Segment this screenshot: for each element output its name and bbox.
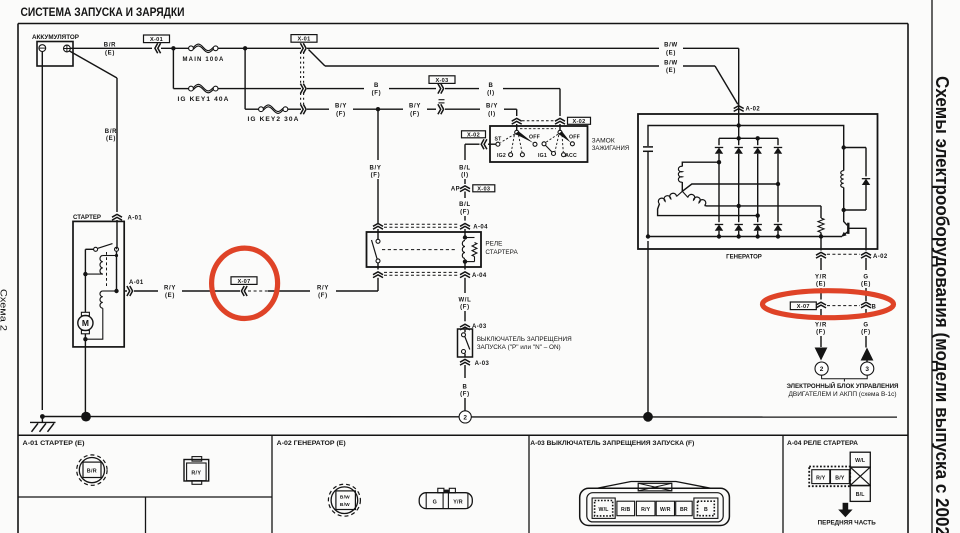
wire battery minus to ground: [41, 52, 43, 411]
svg-text:MAIN 100A: MAIN 100A: [183, 57, 225, 63]
ECU bracket: [822, 375, 868, 378]
svg-text:W/L: W/L: [855, 458, 866, 464]
svg-text:(F): (F): [861, 330, 871, 336]
IG2 contact: [509, 153, 513, 157]
stator coil 1: [678, 166, 682, 182]
A-01 square connector pin R/Y: [184, 460, 209, 482]
svg-text:B/W: B/W: [664, 43, 678, 49]
wire B/Y into relay: [377, 109, 379, 160]
svg-text:ЭЛЕКТРОННЫЙ БЛОК УПРАВЛЕНИЯ: ЭЛЕКТРОННЫЙ БЛОК УПРАВЛЕНИЯ: [787, 381, 899, 390]
svg-text:OFF: OFF: [529, 134, 540, 140]
svg-text:B/R: B/R: [105, 129, 117, 135]
svg-text:AP: AP: [451, 186, 460, 192]
diode column 4 bottom diode: [777, 184, 779, 222]
connector A-02 (generator top): [734, 106, 744, 109]
svg-text:B/Y: B/Y: [409, 104, 421, 110]
IG1 contacts + arm: [542, 142, 546, 146]
svg-text:X-07: X-07: [797, 304, 810, 310]
capacitor C1: [643, 146, 653, 148]
A-03 pins W/L R/B R/Y W/R BR B: [592, 498, 615, 518]
stator coil 2 (left): [677, 191, 683, 196]
wire R/Y starter to relay: [134, 290, 158, 292]
svg-text:A-02: A-02: [746, 107, 761, 113]
relay switch blade: [372, 240, 378, 259]
A-02 oval connector pins G Y/R: [419, 493, 472, 509]
stator phase 2 wire to diode column 3: [658, 204, 758, 216]
starter switch blade: [98, 244, 113, 249]
svg-text:B/Y: B/Y: [335, 104, 347, 110]
svg-text:G: G: [863, 275, 868, 281]
connector A-03 (bottom): [464, 354, 466, 358]
svg-text:R/Y: R/Y: [317, 285, 329, 291]
arrow into ECU pin 3: [861, 348, 874, 361]
rectifier bottom bus: [648, 236, 842, 238]
svg-text:OFF: OFF: [569, 134, 580, 140]
svg-text:(F): (F): [372, 91, 382, 97]
battery plus terminal: [64, 45, 71, 52]
diode column 2 bottom diode: [738, 206, 740, 222]
connector A-03 (top): [460, 324, 470, 327]
arrow into ECU pin 2: [815, 348, 828, 361]
regulator transistor Q1: [844, 210, 848, 225]
svg-text:ST: ST: [494, 136, 502, 142]
sense resistor R1: [820, 206, 822, 218]
svg-text:ЗАПУСКА ("P" или "N" – ON): ЗАПУСКА ("P" или "N" – ON): [477, 344, 561, 351]
svg-text:(F): (F): [336, 111, 346, 117]
margin rule: [931, 0, 933, 533]
connector A-02 (generator bottom): [816, 252, 826, 255]
connector X-01 (right, boxed): [291, 35, 317, 43]
svg-text:Y/R: Y/R: [815, 275, 827, 281]
svg-text:IG KEY1 40A: IG KEY1 40A: [178, 97, 230, 103]
svg-text:X-02: X-02: [572, 119, 585, 125]
connector detail section divider: [18, 434, 908, 436]
wire Y/R to ECU: [820, 258, 822, 270]
svg-text:B: B: [704, 507, 708, 513]
junction: [171, 46, 175, 50]
svg-text:B: B: [462, 385, 467, 391]
svg-text:ПЕРЕДНЯЯ ЧАСТЬ: ПЕРЕДНЯЯ ЧАСТЬ: [818, 521, 877, 527]
svg-text:IG1: IG1: [538, 153, 547, 159]
svg-text:B/R: B/R: [104, 43, 116, 49]
starter switch wires: [116, 247, 118, 249]
connector X-03 (B/Y row) dashed link: [439, 99, 445, 101]
svg-text:G: G: [433, 500, 437, 506]
ECU pin 2 node: [815, 362, 828, 375]
connector X-07 (R/Y wire): [231, 277, 257, 285]
connector X-07 (Y/R, G wires): [790, 302, 816, 310]
svg-text:Схемы электрооборудования (мод: Схемы электрооборудования (модели выпуск…: [932, 76, 952, 533]
svg-text:A-04: A-04: [472, 273, 487, 279]
svg-text:A-03: A-03: [472, 324, 487, 330]
diode column 2 top diode: [738, 138, 740, 145]
svg-text:W/L: W/L: [599, 507, 610, 513]
svg-text:(I): (I): [461, 173, 469, 179]
rectifier top bus: [719, 137, 778, 139]
connector X-03 (B row): [429, 76, 455, 84]
svg-text:X-02: X-02: [467, 133, 480, 139]
svg-text:X-03: X-03: [435, 78, 448, 84]
wire top row to B/W (E) and generator: [303, 43, 306, 53]
svg-text:(E): (E): [666, 50, 676, 56]
svg-text:(I): (I): [488, 111, 496, 117]
field flyback diode: [865, 148, 867, 177]
battery minus terminal: [39, 45, 46, 52]
svg-text:W/L: W/L: [458, 298, 471, 304]
A-04 connector cells: [850, 452, 870, 467]
B row (B (F) / B (I)) to ignition switch: [303, 84, 306, 94]
left OFF contact + wedge: [533, 142, 537, 146]
ST contact: [496, 142, 500, 146]
relay coil with resistor: [464, 229, 466, 238]
starter hold-in coil: [103, 290, 117, 292]
svg-text:B/Y: B/Y: [369, 166, 381, 172]
svg-text:B: B: [872, 304, 877, 310]
wire IG KEY1 fuse to B row: [218, 88, 301, 90]
svg-text:B/W: B/W: [340, 502, 350, 508]
svg-text:B/Y: B/Y: [835, 475, 845, 481]
svg-text:3: 3: [865, 366, 869, 373]
svg-text:R/Y: R/Y: [191, 471, 201, 477]
stator neutral to diode column 4: [682, 184, 778, 191]
svg-text:ЗАМОК: ЗАМОК: [592, 138, 615, 145]
wire MAIN fuse to junction: [218, 47, 301, 49]
ground node 2: [459, 411, 471, 423]
svg-text:B: B: [488, 83, 493, 89]
svg-text:(E): (E): [861, 282, 871, 288]
svg-text:(F): (F): [460, 392, 470, 398]
relay mechanical dashed link: [382, 249, 457, 251]
svg-text:Y/R: Y/R: [453, 500, 463, 506]
A-01 round connector pin B/R: [77, 455, 107, 485]
svg-text:X-01: X-01: [297, 37, 310, 43]
svg-text:A-03 ВЫКЛЮЧАТЕЛЬ ЗАПРЕЩЕНИЯ З: A-03 ВЫКЛЮЧАТЕЛЬ ЗАПРЕЩЕНИЯ ЗАПУСКА (F): [530, 440, 694, 447]
wire second B/W (E) row: [309, 50, 326, 67]
svg-text:A-04 РЕЛЕ СТАРТЕРА: A-04 РЕЛЕ СТАРТЕРА: [787, 440, 859, 447]
wire relay to P/N switch (W/L): [464, 278, 466, 293]
svg-text:B/L: B/L: [459, 166, 471, 172]
right OFF contact + wedge: [570, 142, 574, 146]
X-01 harness dashed link: [300, 52, 302, 83]
stator coil 3 (right): [682, 191, 688, 197]
svg-text:СТАРТЕРА: СТАРТЕРА: [485, 249, 518, 256]
svg-text:IG2: IG2: [497, 153, 506, 159]
generator case ground wire: [647, 241, 649, 417]
starter motor M: [84, 274, 86, 312]
ignition left dashed rays: [501, 134, 515, 143]
svg-text:A-02: A-02: [873, 254, 888, 260]
svg-text:X-07: X-07: [237, 279, 250, 285]
wire ST to starter relay (B/L): [464, 144, 466, 160]
svg-text:B/W: B/W: [664, 60, 678, 66]
svg-text:ВЫКЛЮЧАТЕЛЬ ЗАПРЕЩЕНИЯ: ВЫКЛЮЧАТЕЛЬ ЗАПРЕЩЕНИЯ: [477, 336, 572, 343]
svg-text:R/Y: R/Y: [164, 285, 176, 291]
svg-text:B/W: B/W: [340, 494, 350, 500]
svg-text:IG KEY2 30A: IG KEY2 30A: [248, 117, 300, 123]
svg-text:(F): (F): [460, 305, 470, 311]
svg-text:(E): (E): [105, 50, 115, 56]
svg-text:ДВИГАТЕЛЕМ И АКПП (схема B-1c): ДВИГАТЕЛЕМ И АКПП (схема B-1c): [789, 391, 897, 398]
diode column 1 bottom diode: [718, 162, 720, 222]
svg-text:B/L: B/L: [856, 492, 866, 498]
generator box (ГЕНЕРАТОР) G1: [638, 114, 878, 249]
diode column 3 bottom diode: [757, 216, 759, 223]
ignition pivot dashed link: [520, 128, 556, 130]
A-03 connector housing: [580, 488, 730, 525]
svg-text:(E): (E): [106, 136, 116, 142]
starter switch contacts: [94, 247, 98, 251]
relay switch contacts: [377, 229, 379, 239]
transistor base wire to G terminal: [848, 228, 866, 250]
svg-text:(F): (F): [460, 209, 470, 215]
fuse MAIN 100A: [189, 46, 194, 51]
wire battery plus to X-01 (B/R): [70, 47, 152, 49]
left mid contact: [520, 153, 524, 157]
wire junction down to IG KEY1 fuse: [172, 48, 174, 88]
svg-text:Y/R: Y/R: [815, 323, 827, 329]
park/neutral inhibitor switch (ВЫКЛЮЧАТЕЛЬ ЗАПРЕЩЕНИЯ ЗАПУСКА) S1: [458, 329, 473, 357]
svg-text:A-04: A-04: [473, 225, 488, 231]
svg-text:(I): (I): [487, 91, 495, 97]
svg-text:G: G: [863, 323, 868, 329]
junction B/Y to starter relay: [376, 107, 380, 111]
wire X-01 to MAIN fuse junction: [161, 47, 189, 49]
diode column 4 top diode: [777, 138, 779, 145]
connector A-04 (relay top): [373, 224, 383, 227]
ignition left pivot: [515, 130, 519, 134]
starter relay box (РЕЛЕ СТАРТЕРА) K1: [367, 232, 482, 267]
svg-text:B/Y: B/Y: [486, 104, 498, 110]
ignition right dashed rays: [546, 134, 558, 142]
svg-text:(E): (E): [816, 282, 826, 288]
diagram frame: [18, 23, 908, 25]
svg-text:СТАРТЕР: СТАРТЕР: [73, 214, 102, 221]
junction starter ground: [81, 412, 91, 422]
fuse IG KEY1 40A: [189, 86, 194, 91]
svg-text:(F): (F): [410, 111, 420, 117]
svg-text:A-02 ГЕНЕРАТОР (E): A-02 ГЕНЕРАТОР (E): [277, 440, 346, 447]
wire G to ECU: [865, 258, 867, 270]
svg-text:B: B: [374, 83, 379, 89]
svg-text:РЕЛЕ: РЕЛЕ: [485, 240, 503, 247]
diode column 3 top diode: [757, 138, 759, 145]
svg-text:X-01: X-01: [150, 37, 163, 43]
regulator field branch junction: [842, 145, 846, 149]
ignition switch (ЗАМОК ЗАЖИГАНИЯ) U-ign: [490, 126, 588, 162]
wire starter to ground: [84, 339, 86, 416]
svg-text:A-01: A-01: [129, 280, 144, 286]
svg-text:ГЕНЕРАТОР: ГЕНЕРАТОР: [726, 254, 762, 261]
field coil L1: [843, 148, 845, 171]
svg-text:Схема 2: Схема 2: [0, 289, 9, 331]
svg-text:2: 2: [820, 366, 824, 373]
svg-text:M: M: [82, 318, 89, 328]
junction battery ground: [40, 414, 45, 419]
starter pull-in coil: [103, 255, 117, 257]
stator phase 3 wire to diode column 2 and regulator: [705, 204, 822, 207]
svg-text:R/Y: R/Y: [641, 507, 651, 513]
svg-text:(F): (F): [371, 173, 381, 179]
svg-text:W/R: W/R: [660, 507, 671, 513]
B/Y row to ignition switch: [303, 104, 306, 114]
svg-text:ACC: ACC: [565, 153, 577, 159]
fuse IG KEY2 30A: [259, 107, 264, 112]
stator phase 1 wire: [682, 162, 719, 166]
generator inner top wire: [648, 126, 844, 148]
svg-text:A-03: A-03: [475, 361, 490, 367]
wire battery plus to starter (B/R): [70, 51, 118, 78]
svg-text:R/Y: R/Y: [816, 475, 826, 481]
red highlight circle (X-07 on R/Y wire): [212, 248, 278, 318]
ground symbol: [41, 417, 43, 423]
ECU pin 3 node: [861, 362, 874, 375]
starter solenoid mech link: [106, 252, 108, 288]
connector A-01 (starter R/Y): [124, 290, 127, 292]
svg-text:ЗАЖИГАНИЯ: ЗАЖИГАНИЯ: [592, 145, 630, 152]
red highlight ellipse (X-07 on Y/R,G wires): [763, 291, 894, 318]
svg-text:B/R: B/R: [87, 468, 97, 474]
svg-text:R/B: R/B: [621, 507, 631, 513]
junction generator ground: [643, 412, 653, 422]
svg-text:2: 2: [463, 414, 467, 421]
svg-text:(E): (E): [165, 293, 175, 299]
svg-text:СИСТЕМА ЗАПУСКА И ЗАРЯДКИ: СИСТЕМА ЗАПУСКА И ЗАРЯДКИ: [21, 7, 185, 19]
svg-text:(F): (F): [318, 293, 328, 299]
ACC contact: [562, 153, 566, 157]
connector X-02 (ignition switch top): [512, 118, 522, 121]
wire junction down to IG KEY2 fuse: [244, 48, 246, 109]
connector A-01 (starter top): [112, 214, 122, 217]
svg-text:АККУМУЛЯТОР: АККУМУЛЯТОР: [32, 34, 80, 41]
connector X-01 (battery side): [144, 35, 170, 43]
diode column 1 top diode: [718, 138, 720, 145]
ignition right pivot: [558, 130, 562, 134]
svg-text:BR: BR: [680, 507, 688, 513]
svg-text:(F): (F): [816, 330, 826, 336]
A-02 round connector pins B/W B/W: [328, 484, 360, 516]
svg-text:A-01: A-01: [128, 216, 143, 222]
connector A-04 (relay bottom): [377, 263, 379, 270]
connector X-02 (ST wire): [462, 131, 486, 138]
svg-text:B/L: B/L: [459, 202, 471, 208]
A-04 front direction arrow: [843, 503, 849, 511]
svg-text:X-03: X-03: [477, 187, 490, 193]
ground bus wire: [42, 416, 459, 418]
svg-text:A-01 СТАРТЕР (E): A-01 СТАРТЕР (E): [23, 440, 85, 447]
svg-text:(E): (E): [666, 68, 676, 74]
